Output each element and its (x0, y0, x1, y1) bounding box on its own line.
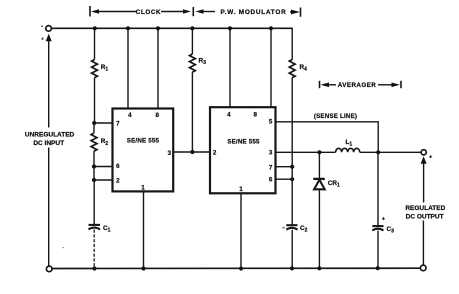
svg-text:SE/NE 555: SE/NE 555 (227, 138, 260, 145)
wire: right rail upper segment (423, 163, 425, 203)
svg-text:6: 6 (269, 177, 273, 184)
node: junction R3 pin3 wire (190, 150, 194, 154)
wire: bottom return bus (52, 267, 421, 269)
wire: U2 pin1 to bottom bus (240, 193, 242, 268)
svg-text:CLOCK: CLOCK (136, 9, 161, 16)
scan speckles (decorative) (41, 26, 285, 249)
svg-text:REGULATED: REGULATED (405, 205, 445, 212)
wire: pin 6 lead (94, 166, 113, 168)
resistor R3 (190, 28, 207, 152)
wire: left rail lower segment (48, 148, 50, 267)
node: junction pin1 U1 bottom bus (141, 266, 145, 270)
node: junction CR1 switch node (317, 150, 321, 154)
resistor R2 (91, 123, 108, 167)
capacitor C2 (286, 225, 307, 269)
wire: top bus corner to R4 (292, 27, 294, 29)
wire: pin4 U2 to bus (229, 28, 231, 107)
diode CR1 (313, 152, 340, 268)
arrow: output polarity arrow (421, 156, 427, 164)
node: junction pin2 (92, 178, 96, 182)
node: junction output node (376, 150, 380, 154)
wire: pin8 U1 to bus (157, 28, 159, 108)
terminal: unregulated input (46, 26, 52, 32)
svg-text:3: 3 (168, 150, 172, 157)
svg-text:DC INPUT: DC INPUT (33, 140, 64, 147)
node: junction pin8 U2 bus (269, 26, 273, 30)
wire: pin 7 lead (94, 122, 112, 124)
svg-text:4: 4 (227, 111, 231, 118)
wire: U2 pin7 lead (276, 166, 293, 168)
svg-text:7: 7 (116, 121, 120, 128)
terminal: bottom right (420, 265, 426, 271)
terminal: bottom left (46, 266, 52, 272)
svg-text:4: 4 (128, 112, 132, 119)
node: junction pin8 U1 bus (156, 26, 160, 30)
wire: pin8 U2 to bus (270, 28, 272, 107)
svg-text:P.W. MODULATOR: P.W. MODULATOR (221, 9, 287, 16)
svg-text:8: 8 (155, 112, 159, 119)
label: REGULATED DC OUTPUT (405, 205, 445, 221)
dimension label P.W. MODULATOR (196, 8, 301, 17)
svg-text:SE/NE 555: SE/NE 555 (127, 137, 160, 144)
op-amp U1 (SE/NE 555 clock timer) (113, 109, 174, 192)
svg-text:DC OUTPUT: DC OUTPUT (406, 213, 444, 220)
capacitor C3 (372, 152, 394, 268)
wire: left rail upper segment (48, 41, 50, 128)
svg-text:(SENSE LINE): (SENSE LINE) (314, 113, 357, 120)
capacitor C1 (89, 180, 111, 269)
svg-text:7: 7 (269, 164, 273, 171)
node: junction C1 bottom bus (92, 266, 96, 270)
svg-text:UNREGULATED: UNREGULATED (25, 132, 75, 139)
wire: U1 pin1 to bottom bus (143, 191, 145, 268)
node: junction pin1 U2 bottom bus (239, 266, 243, 270)
node: junction pin7 (92, 121, 96, 125)
node: junction pin7 U2 R4 line (290, 165, 294, 169)
resistor R4 (289, 28, 307, 166)
label: UNREGULATED DC INPUT (25, 132, 75, 147)
node: junction CR1 bottom bus (317, 266, 321, 270)
node: junction C3 bottom bus (376, 266, 380, 270)
wire: R2 to pin2 node (93, 167, 95, 181)
svg-text:6: 6 (116, 163, 120, 170)
op-amp U2 (SE/NE 555 pulse width modulator) (210, 107, 276, 193)
node: junction C2 bottom bus (290, 266, 294, 270)
wire: right rail lower segment (422, 221, 424, 266)
wire: U2 pin3 output row (276, 151, 320, 153)
terminal: regulated output (421, 150, 426, 155)
node: junction pin6 (92, 164, 96, 168)
svg-text:2: 2 (213, 150, 217, 157)
node: junction R1 top bus (93, 26, 97, 30)
wire: top supply bus (52, 27, 293, 29)
svg-text:3: 3 (269, 150, 273, 157)
wire: U1 pin3 to U2 pin2 (173, 151, 210, 153)
resistor R1 (92, 28, 109, 123)
dimension label CLOCK (90, 6, 193, 17)
node: junction pin4 U2 bus (228, 26, 232, 30)
arrow: input polarity arrow (46, 34, 52, 42)
node: junction R3 top bus (190, 26, 194, 30)
wire: R4 line down to C2 (291, 167, 293, 225)
inductor L1 (319, 139, 421, 152)
svg-text:5: 5 (269, 118, 273, 125)
dimension label AVERAGER (320, 81, 402, 89)
wire: pin 2 lead (94, 179, 113, 181)
svg-text:AVERAGER: AVERAGER (338, 82, 376, 89)
wire: pin4 U1 to bus (127, 28, 129, 108)
node: junction pin6 U2 R4 line (290, 177, 294, 181)
node: junction pin4 U1 bus (126, 26, 130, 30)
svg-text:1: 1 (239, 186, 243, 193)
svg-text:2: 2 (116, 178, 120, 185)
svg-text:8: 8 (253, 111, 257, 118)
wire: U2 pin5 sense line (276, 122, 379, 153)
wire: U2 pin6 lead (276, 178, 293, 180)
svg-text:1: 1 (141, 184, 145, 191)
